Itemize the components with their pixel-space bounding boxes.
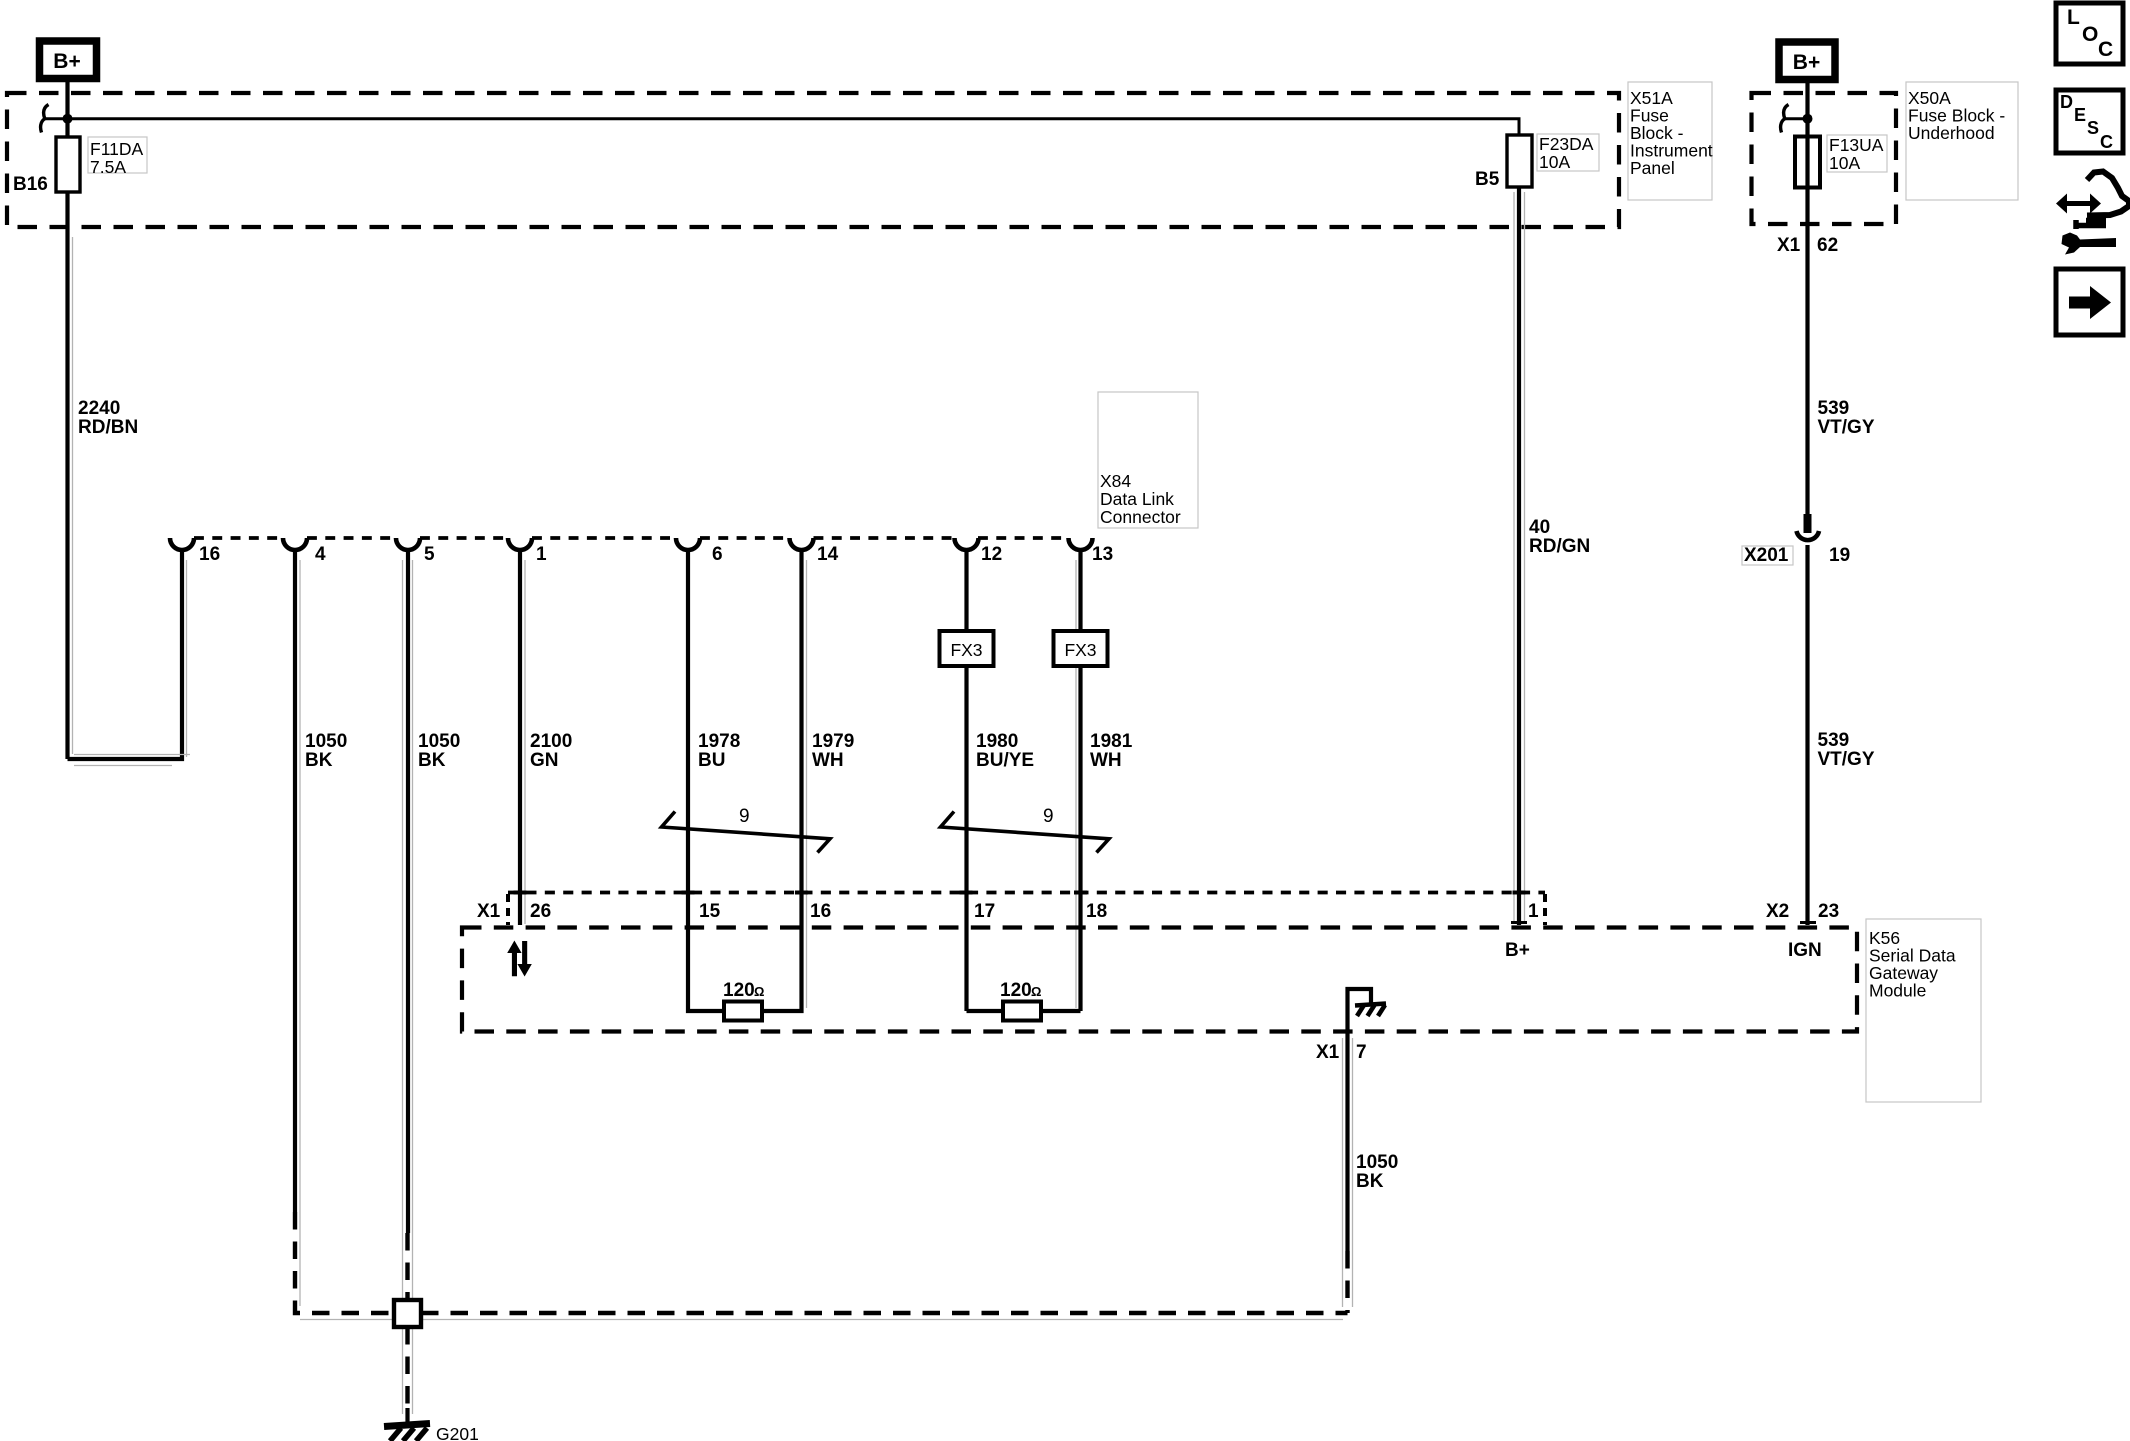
svg-text:23: 23 [1818, 901, 1839, 922]
svg-text:120: 120 [1000, 980, 1032, 1001]
svg-text:F11DA: F11DA [90, 139, 143, 159]
wire pin4 1050 BK [293, 550, 297, 1212]
internal chassis ground symbol [1355, 1004, 1386, 1017]
svg-text:18: 18 [1086, 901, 1107, 922]
svg-text:S: S [2087, 118, 2099, 138]
icon LOC box [2056, 3, 2123, 64]
twisted pair symbol (1978/1979) note 9 [662, 812, 831, 853]
svg-text:X84: X84 [1100, 471, 1131, 491]
svg-text:B16: B16 [13, 174, 48, 195]
in-line fuse FX3 (left) [940, 631, 994, 666]
fuse F11DA [56, 137, 80, 192]
svg-text:15: 15 [699, 901, 721, 922]
dashed harness run pin5 to junction [405, 1233, 409, 1301]
right end cap [1543, 894, 1547, 925]
pin 4 arc [283, 538, 307, 550]
pin 13 arc [1069, 538, 1093, 550]
module X1 connector fine dotted line [508, 891, 1545, 895]
svg-text:19: 19 [1829, 545, 1850, 566]
svg-text:IGN: IGN [1788, 940, 1822, 961]
icon DESC box [2056, 90, 2123, 153]
svg-text:40: 40 [1529, 517, 1550, 538]
svg-text:Connector: Connector [1100, 507, 1181, 527]
svg-text:12: 12 [981, 544, 1002, 565]
svg-text:1980: 1980 [976, 731, 1018, 752]
svg-text:B+: B+ [1505, 940, 1530, 961]
wire pin14 1979 WH / module pin16 [762, 550, 802, 1011]
svg-text:BK: BK [305, 750, 333, 771]
svg-text:F23DA: F23DA [1539, 134, 1594, 154]
svg-text:C: C [2098, 38, 2113, 61]
pin 6 arc [676, 538, 700, 550]
icon connector service (double arrow, housing, wrench) [2056, 172, 2129, 255]
svg-text:BK: BK [418, 750, 446, 771]
svg-text:539: 539 [1818, 730, 1850, 751]
svg-text:26: 26 [530, 901, 551, 922]
fuse block X51A outline [7, 93, 1619, 227]
wire B+ left down into fuse block [65, 82, 69, 138]
svg-text:RD/GN: RD/GN [1529, 536, 1590, 557]
wire pin13 1981 WH / module pin18 [1078, 550, 1082, 631]
pin ticks on X1 connector line [514, 891, 1526, 895]
label K56 Serial Data Gateway Module [1866, 919, 1981, 1102]
svg-text:B+: B+ [53, 50, 80, 73]
label F23DA 10A [1537, 134, 1599, 171]
svg-text:FX3: FX3 [1064, 640, 1096, 660]
svg-text:RD/BN: RD/BN [78, 417, 138, 438]
svg-text:BU: BU [698, 750, 725, 771]
svg-text:120: 120 [723, 980, 755, 1001]
resistor 120 ohm (right) [1003, 1002, 1041, 1021]
svg-text:O: O [2082, 23, 2098, 46]
svg-text:1050: 1050 [305, 731, 347, 752]
wire pin6 1978 BU / module pin15 [688, 550, 724, 1011]
svg-text:D: D [2060, 92, 2073, 112]
svg-text:Module: Module [1869, 981, 1926, 1001]
svg-text:539: 539 [1818, 398, 1850, 419]
svg-text:F13UA: F13UA [1829, 135, 1884, 155]
svg-text:10A: 10A [1829, 153, 1860, 173]
svg-text:6: 6 [712, 544, 723, 565]
svg-text:VT/GY: VT/GY [1818, 749, 1875, 770]
wire 1050 BK from module pin X1 7 [1345, 1033, 1349, 1251]
serial data arrows up/down [507, 941, 532, 977]
svg-text:4: 4 [315, 544, 326, 565]
svg-text:B5: B5 [1475, 169, 1500, 190]
svg-text:X1: X1 [1777, 235, 1801, 256]
label X84 Data Link Connector [1098, 392, 1198, 528]
svg-text:17: 17 [974, 901, 995, 922]
pin 12 arc [955, 538, 979, 550]
wire X201 to module X2 23 [1805, 545, 1809, 925]
junction dot [1803, 114, 1813, 124]
svg-text:9: 9 [739, 806, 750, 827]
svg-text:62: 62 [1817, 235, 1838, 256]
svg-text:1978: 1978 [698, 731, 740, 752]
svg-text:10A: 10A [1539, 152, 1570, 172]
svg-text:1979: 1979 [812, 731, 854, 752]
svg-text:GN: GN [530, 750, 559, 771]
wire bus to right fuse [68, 119, 1520, 137]
svg-text:BK: BK [1356, 1171, 1384, 1192]
label F11DA 7.5A [88, 137, 147, 173]
tick X2 23 [1800, 921, 1816, 924]
svg-text:Panel: Panel [1630, 158, 1675, 178]
fuse block X50A outline [1752, 93, 1897, 224]
svg-text:X201: X201 [1744, 545, 1789, 566]
svg-text:14: 14 [817, 544, 839, 565]
svg-text:L: L [2067, 6, 2080, 29]
svg-text:G201: G201 [436, 1424, 479, 1441]
internal ground wire in module [1348, 989, 1372, 1031]
svg-text:2240: 2240 [78, 398, 120, 419]
svg-text:2100: 2100 [530, 731, 572, 752]
junction dot [63, 114, 73, 124]
ground G201 [384, 1424, 430, 1441]
twisted pair symbol (1980/1981) note 9 [941, 812, 1110, 853]
svg-text:WH: WH [812, 750, 844, 771]
power feed B+ (right) [1779, 42, 1835, 80]
pin 5 arc [396, 538, 420, 550]
harness dashed line bottom [421, 1311, 1348, 1315]
svg-text:BU/YE: BU/YE [976, 750, 1034, 771]
svg-text:B+: B+ [1793, 51, 1820, 74]
module K56 outline [462, 928, 1857, 1032]
wire B+ right down [1805, 82, 1809, 517]
svg-text:C: C [2100, 132, 2113, 152]
label X51A Fuse Block - Instrument Panel [1628, 82, 1712, 200]
left end cap [506, 894, 510, 925]
bus tap squiggle (left) [41, 105, 49, 133]
svg-text:E: E [2074, 105, 2086, 125]
svg-text:X2: X2 [1766, 901, 1789, 922]
pin 14 arc [790, 538, 814, 550]
svg-text:VT/GY: VT/GY [1818, 417, 1875, 438]
bus tap squiggle (right) [1781, 105, 1789, 133]
svg-text:WH: WH [1090, 750, 1122, 771]
svg-text:5: 5 [424, 544, 435, 565]
svg-text:1: 1 [536, 544, 547, 565]
label F13UA 10A [1827, 135, 1887, 172]
svg-text:X1: X1 [1316, 1042, 1340, 1063]
label X50A Fuse Block - Underhood [1906, 82, 2018, 200]
svg-text:9: 9 [1043, 806, 1054, 827]
icon arrow box [2056, 269, 2123, 335]
svg-text:16: 16 [810, 901, 831, 922]
wire 2240 RD/BN [65, 192, 69, 759]
tick pin1 [1511, 921, 1527, 924]
svg-text:X1: X1 [477, 901, 501, 922]
wire pin1 2100 GN [518, 550, 522, 925]
wire 40 RD/GN [1517, 187, 1521, 925]
connector X84 Data Link Connector : dashed line [194, 536, 1069, 540]
svg-text:16: 16 [199, 544, 220, 565]
svg-text:1: 1 [1528, 901, 1539, 922]
svg-text:1050: 1050 [418, 731, 460, 752]
dashed harness run from pin4 wire [295, 1212, 392, 1313]
svg-text:Ω: Ω [1031, 984, 1041, 999]
svg-text:13: 13 [1092, 544, 1113, 565]
fuse F13UA [1795, 137, 1820, 188]
svg-text:1981: 1981 [1090, 731, 1133, 752]
svg-text:FX3: FX3 [950, 640, 982, 660]
wire pin5 1050 BK [406, 550, 410, 1233]
svg-text:Underhood: Underhood [1908, 123, 1995, 143]
svg-text:Data Link: Data Link [1100, 489, 1174, 509]
resistor 120 ohm (left) [724, 1002, 762, 1021]
inline connector X201 pin 19 [1804, 514, 1812, 533]
dashed harness run to junction [1345, 1251, 1349, 1313]
wire pin12 1980 BU/YE / module pin17 [964, 550, 968, 631]
in-line fuse FX3 (right) [1054, 631, 1108, 666]
power feed B+ (left) [40, 41, 97, 79]
pin 16 arc [170, 538, 194, 550]
splice junction square [394, 1300, 421, 1327]
fuse F23DA [1507, 135, 1532, 187]
dashed harness run junction to G201 [405, 1327, 409, 1410]
svg-text:7: 7 [1356, 1042, 1367, 1063]
pin 1 arc [508, 538, 532, 550]
svg-text:7.5A: 7.5A [90, 157, 126, 177]
svg-text:Ω: Ω [754, 984, 764, 999]
svg-text:1050: 1050 [1356, 1152, 1398, 1173]
